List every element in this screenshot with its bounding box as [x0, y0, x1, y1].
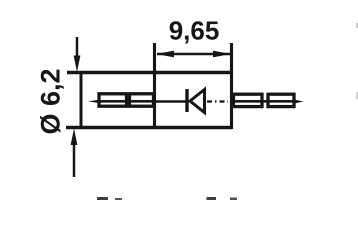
svg-text:9,65: 9,65 [169, 16, 220, 46]
svg-text:Ø 6,2: Ø 6,2 [36, 68, 66, 134]
